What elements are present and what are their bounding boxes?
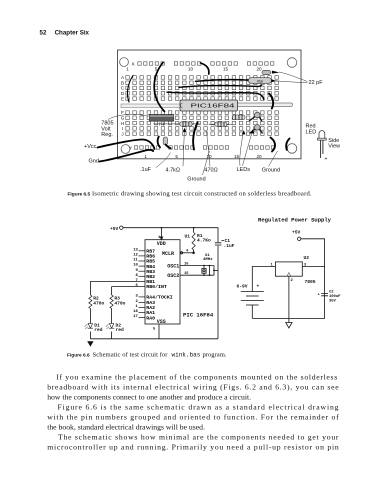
svg-text:View: View [328,144,340,150]
svg-text:LEDs: LEDs [237,167,251,173]
svg-text:52: 52 [40,30,47,37]
svg-text:13: 13 [133,248,138,252]
svg-text:I: I [122,126,123,131]
svg-text:H: H [121,121,124,126]
svg-text:+5V: +5V [110,226,119,232]
svg-text:+: + [257,284,260,289]
svg-text:the book, standard electrical: the book, standard electrical drawings w… [47,423,205,432]
svg-text:+5V: +5V [292,230,301,236]
svg-text:Red: Red [306,124,316,130]
svg-text:Reg.: Reg. [101,132,113,138]
svg-text:16: 16 [184,263,189,267]
svg-text:4MHz: 4MHz [203,258,213,262]
svg-text:Figure 6.6: Figure 6.6 [67,352,90,358]
svg-text:C2: C2 [329,291,334,295]
svg-text:Y: Y [129,145,132,150]
svg-text:microcontroller up and running: microcontroller up and running. Primaril… [47,443,339,452]
svg-text:10: 10 [133,264,138,268]
svg-text:20: 20 [256,154,262,159]
svg-text:RB3: RB3 [146,269,155,275]
svg-text:wink.bas: wink.bas [172,351,201,358]
svg-text:B: B [121,80,124,85]
svg-text:470Ω: 470Ω [204,167,217,173]
svg-text:11: 11 [133,259,138,263]
svg-text:.1uF: .1uF [224,243,235,249]
svg-text:PIC16F84: PIC16F84 [191,104,235,110]
svg-text:red: red [94,327,103,333]
svg-text:RA3: RA3 [146,300,155,306]
svg-text:RB4: RB4 [146,264,155,270]
svg-text:RB0/INT: RB0/INT [146,284,167,290]
svg-text:18: 18 [133,310,138,314]
svg-text:RA1: RA1 [146,310,155,316]
svg-text:20: 20 [256,67,262,72]
svg-text:Schematic of test circuit for: Schematic of test circuit for [93,351,169,358]
svg-text:17: 17 [133,315,138,319]
svg-text:15: 15 [234,154,240,159]
svg-text:OSC1: OSC1 [167,263,179,269]
svg-text:breadboard with its internal e: breadboard with its internal electrical … [47,383,339,392]
svg-text:OSC2: OSC2 [167,273,179,279]
svg-text:how the components connect to: how the components connect to one anothe… [47,393,251,402]
svg-text:15: 15 [223,67,229,72]
svg-text:Ground: Ground [187,177,205,183]
svg-text:+Vcc: +Vcc [84,144,97,150]
svg-text:12: 12 [133,254,138,258]
svg-text:PIC 16F84: PIC 16F84 [183,312,214,319]
svg-text:U1: U1 [185,234,191,240]
svg-text:Gnd: Gnd [89,159,99,165]
svg-text:Chapter Six: Chapter Six [55,30,90,37]
svg-text:RB6: RB6 [146,254,155,260]
svg-text:red: red [116,327,125,333]
svg-text:E: E [121,96,124,101]
svg-text:14: 14 [158,236,163,240]
svg-text:The schematic shows how minima: The schematic shows how minimal are the … [58,433,339,442]
svg-text:Figure 6.6 is the same schemat: Figure 6.6 is the same schematic drawn a… [58,403,339,412]
svg-text:Figure 6.5: Figure 6.5 [68,191,91,197]
svg-text:470o: 470o [114,301,125,307]
svg-text:RB5: RB5 [146,259,155,265]
svg-text:1: 1 [144,154,147,159]
svg-text:RA0: RA0 [146,315,155,321]
svg-text:1: 1 [126,67,129,72]
svg-text:RB1: RB1 [146,279,155,285]
svg-text:100uF: 100uF [329,295,341,299]
svg-text:470o: 470o [93,301,104,307]
svg-text:F: F [121,110,124,115]
svg-text:RB7: RB7 [146,249,155,255]
svg-text:program.: program. [203,351,227,358]
svg-text:Xtal: Xtal [257,79,263,83]
svg-text:LED: LED [306,130,317,136]
svg-text:Ground: Ground [262,167,280,173]
svg-text:U2: U2 [304,255,310,261]
svg-text:VSS: VSS [157,319,166,325]
svg-text:X: X [131,61,134,66]
svg-text:G: G [121,116,125,121]
svg-text:RB2: RB2 [146,274,155,280]
svg-text:10: 10 [188,67,194,72]
svg-text:J: J [121,131,123,136]
svg-text:6-9V: 6-9V [237,284,248,290]
svg-text:If you examine the placement o: If you examine the placement of the comp… [56,373,337,382]
svg-text:with the pin numbers grouped a: with the pin numbers grouped and oriente… [47,413,339,422]
svg-text:Regulated Power Supply: Regulated Power Supply [258,218,332,224]
svg-text:15: 15 [184,272,189,276]
svg-text:5: 5 [175,154,178,159]
svg-text:4.7Ko: 4.7Ko [197,238,211,244]
svg-text:22 pF: 22 pF [309,80,324,86]
svg-text:RA4/TOCKI: RA4/TOCKI [146,295,172,301]
svg-text:.1uF: .1uF [140,167,152,173]
svg-text:+: + [325,157,328,163]
svg-text:7805: 7805 [305,279,316,285]
svg-text:VDD: VDD [157,241,166,247]
svg-text:35V: 35V [329,300,337,304]
svg-text:4.7kΩ: 4.7kΩ [166,167,181,173]
svg-text:Isometric drawing showing test: Isometric drawing showing test circuit c… [92,190,312,197]
svg-text:MCLR: MCLR [162,251,174,257]
